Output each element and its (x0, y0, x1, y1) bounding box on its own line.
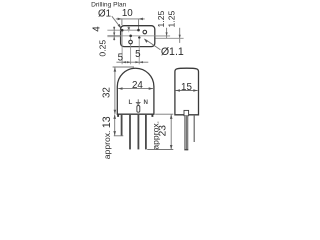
dim line 1.25 second (179, 28, 181, 43)
pin P4 (145, 115, 147, 150)
svg-text:4: 4 (91, 26, 102, 32)
extension hole E down (130, 37, 132, 64)
extension line hole A up (121, 19, 123, 25)
extension line hole C up (138, 19, 140, 29)
arrow right of 10 (139, 18, 143, 21)
extension line top of body for 32 (113, 66, 134, 68)
dim line for 4 and 0.25 (113, 27, 115, 41)
pin P2 (129, 115, 131, 150)
centerline horizontal (121, 35, 171, 37)
leader for Ø1.1 (145, 39, 160, 49)
hole X mark (128, 27, 130, 30)
dimension 5 5 line (116, 61, 148, 63)
side view body (175, 68, 199, 115)
svg-text:10: 10 (122, 8, 133, 19)
right extension line row1 (155, 35, 170, 37)
hole D ring (143, 30, 147, 34)
dim line 1.25 first (166, 28, 168, 39)
hole A dot (121, 29, 124, 32)
side pin shoulder tab (184, 110, 189, 115)
row line through hole A and C (107, 29, 139, 31)
left row line (107, 35, 120, 37)
hole E dot (129, 35, 132, 38)
pin P1 short (121, 115, 123, 136)
hole F dot (138, 36, 140, 38)
extension line 23 bottom (147, 149, 173, 151)
dimension 10 line (116, 18, 145, 20)
side thin pin (194, 115, 195, 142)
svg-text:1.25: 1.25 (166, 11, 176, 28)
svg-text:N: N (143, 99, 148, 106)
drilling plan outline rounded rect (121, 26, 155, 47)
svg-text:0.25: 0.25 (98, 40, 108, 57)
dimension 24 inside body (118, 88, 153, 90)
svg-text:24: 24 (132, 80, 143, 91)
svg-text:5: 5 (118, 52, 124, 63)
svg-text:Ø1: Ø1 (98, 8, 111, 19)
extension hole F down (138, 39, 140, 64)
hole C dot (137, 29, 140, 32)
svg-text:23: 23 (158, 125, 169, 137)
svg-text:1.25: 1.25 (156, 11, 166, 28)
dim line 32 and approx13 (114, 67, 116, 114)
fuse box symbol (137, 106, 140, 113)
dim line approx 23 (170, 114, 172, 149)
side thick pin (184, 116, 188, 151)
arrows 5 5 (122, 61, 126, 63)
extension line 13 bottom (114, 135, 124, 137)
svg-text:L: L (129, 99, 133, 106)
svg-text:approx. 13: approx. 13 (101, 116, 113, 159)
dim line approx 13 (114, 114, 116, 135)
leader for Ø1 (112, 16, 121, 27)
arrow left of 10 (118, 18, 122, 21)
front view body (117, 68, 154, 114)
hole G ring (129, 40, 133, 44)
pin P3 (138, 115, 140, 150)
earth symbol (136, 99, 141, 105)
extension hole A down (121, 32, 123, 65)
svg-text:5: 5 (135, 49, 141, 60)
right extension line row2 (155, 37, 183, 39)
front wall stubs (118, 114, 152, 117)
dimension 15 (176, 90, 198, 92)
svg-text:15: 15 (181, 82, 192, 93)
extension line 23 top (155, 113, 173, 115)
svg-text:32: 32 (102, 87, 113, 98)
svg-text:Ø1.1: Ø1.1 (161, 46, 184, 58)
